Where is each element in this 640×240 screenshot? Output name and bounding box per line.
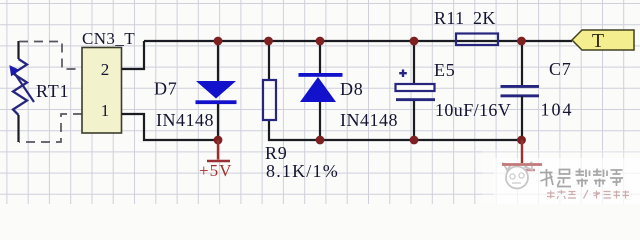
wire bottom ground rail: [269, 120, 522, 140]
svg-text:+5V: +5V: [199, 161, 232, 180]
node C7 top: [517, 37, 526, 46]
svg-text:D8: D8: [340, 79, 364, 99]
node D8 bottom: [316, 136, 325, 145]
svg-text:IN4148: IN4148: [156, 110, 214, 130]
wire pin2 to top rail: [122, 41, 145, 69]
svg-text:RT1: RT1: [36, 81, 69, 101]
node E5 bottom: [410, 136, 419, 145]
svg-text:CN3_T: CN3_T: [82, 29, 135, 48]
diode D8: [299, 41, 343, 140]
svg-text:D7: D7: [154, 79, 178, 99]
node R9 top: [264, 37, 273, 46]
wire dashed RT1 to pin 1: [19, 114, 82, 142]
node D7 top: [214, 37, 223, 46]
port T: [572, 30, 634, 52]
resistor R11: [456, 34, 498, 46]
svg-text:E5: E5: [434, 60, 456, 80]
thermistor RT1: [10, 41, 34, 142]
wire pin1 to bottom node: [122, 114, 219, 140]
svg-text:10uF/16V: 10uF/16V: [435, 100, 511, 120]
wire top rail: [144, 40, 572, 42]
svg-text:1: 1: [101, 101, 110, 120]
wire dashed RT1 to pin 2: [19, 42, 82, 70]
node E5 top: [410, 37, 419, 46]
node D8 top: [316, 37, 325, 46]
watermark: [482, 140, 640, 204]
power +5V: [207, 140, 230, 161]
junction dots: [214, 37, 526, 145]
svg-text:2K: 2K: [473, 8, 496, 28]
ground: [509, 140, 535, 176]
node D7 bottom / +5V: [214, 136, 223, 145]
capacitor C7: [501, 41, 540, 140]
svg-text:R11: R11: [434, 8, 465, 28]
svg-text:8.1K/1%: 8.1K/1%: [266, 161, 339, 181]
svg-text:IN4148: IN4148: [340, 110, 398, 130]
svg-text:104: 104: [541, 100, 574, 120]
svg-text:C7: C7: [549, 59, 572, 79]
connector CN3_T: [82, 48, 122, 134]
svg-text:T: T: [592, 30, 604, 52]
svg-text:2: 2: [101, 60, 110, 79]
node C7 bottom / ground: [517, 136, 526, 145]
svg-text:R9: R9: [265, 143, 288, 163]
capacitor E5 (electrolytic): [396, 41, 436, 140]
resistor R9: [263, 41, 276, 120]
diode D7: [196, 41, 237, 140]
